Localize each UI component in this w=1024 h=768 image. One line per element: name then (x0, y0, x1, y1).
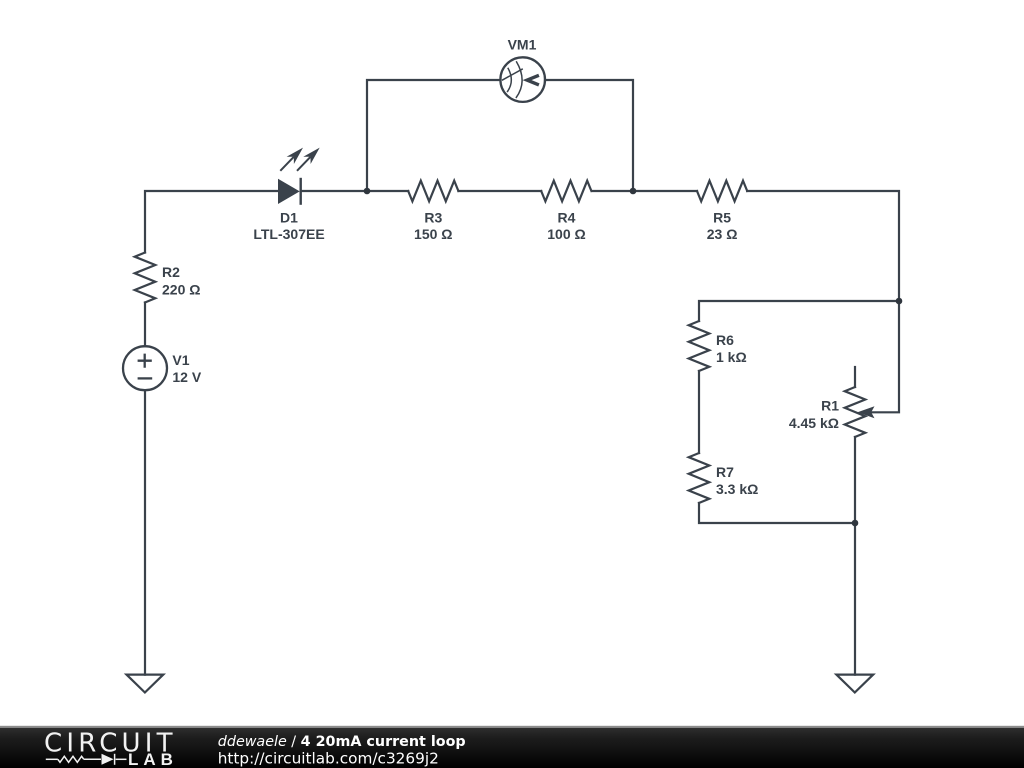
svg-text:D1: D1 (280, 209, 298, 225)
svg-text:V1: V1 (172, 352, 189, 368)
svg-text:220 Ω: 220 Ω (162, 282, 200, 298)
svg-text:R4: R4 (558, 209, 576, 225)
svg-text:R7: R7 (716, 464, 734, 480)
svg-text:R5: R5 (713, 209, 731, 225)
svg-text:ddewaele / 4 20mA current loop: ddewaele / 4 20mA current loop (218, 734, 466, 750)
svg-text:R3: R3 (424, 209, 442, 225)
svg-text:12 V: 12 V (172, 369, 201, 385)
svg-text:R2: R2 (162, 264, 180, 280)
svg-text:R1: R1 (821, 398, 839, 414)
svg-text:100 Ω: 100 Ω (547, 226, 585, 242)
svg-text:VM1: VM1 (508, 37, 537, 53)
svg-text:3.3 kΩ: 3.3 kΩ (716, 481, 758, 497)
svg-text:1 kΩ: 1 kΩ (716, 349, 747, 365)
svg-text:LAB: LAB (128, 750, 178, 768)
svg-text:150 Ω: 150 Ω (414, 226, 452, 242)
svg-text:R6: R6 (716, 332, 734, 348)
svg-text:LTL-307EE: LTL-307EE (253, 226, 324, 242)
svg-text:4.45 kΩ: 4.45 kΩ (789, 415, 839, 431)
svg-text:23 Ω: 23 Ω (707, 226, 738, 242)
svg-text:http://circuitlab.com/c3269j2: http://circuitlab.com/c3269j2 (218, 749, 439, 767)
